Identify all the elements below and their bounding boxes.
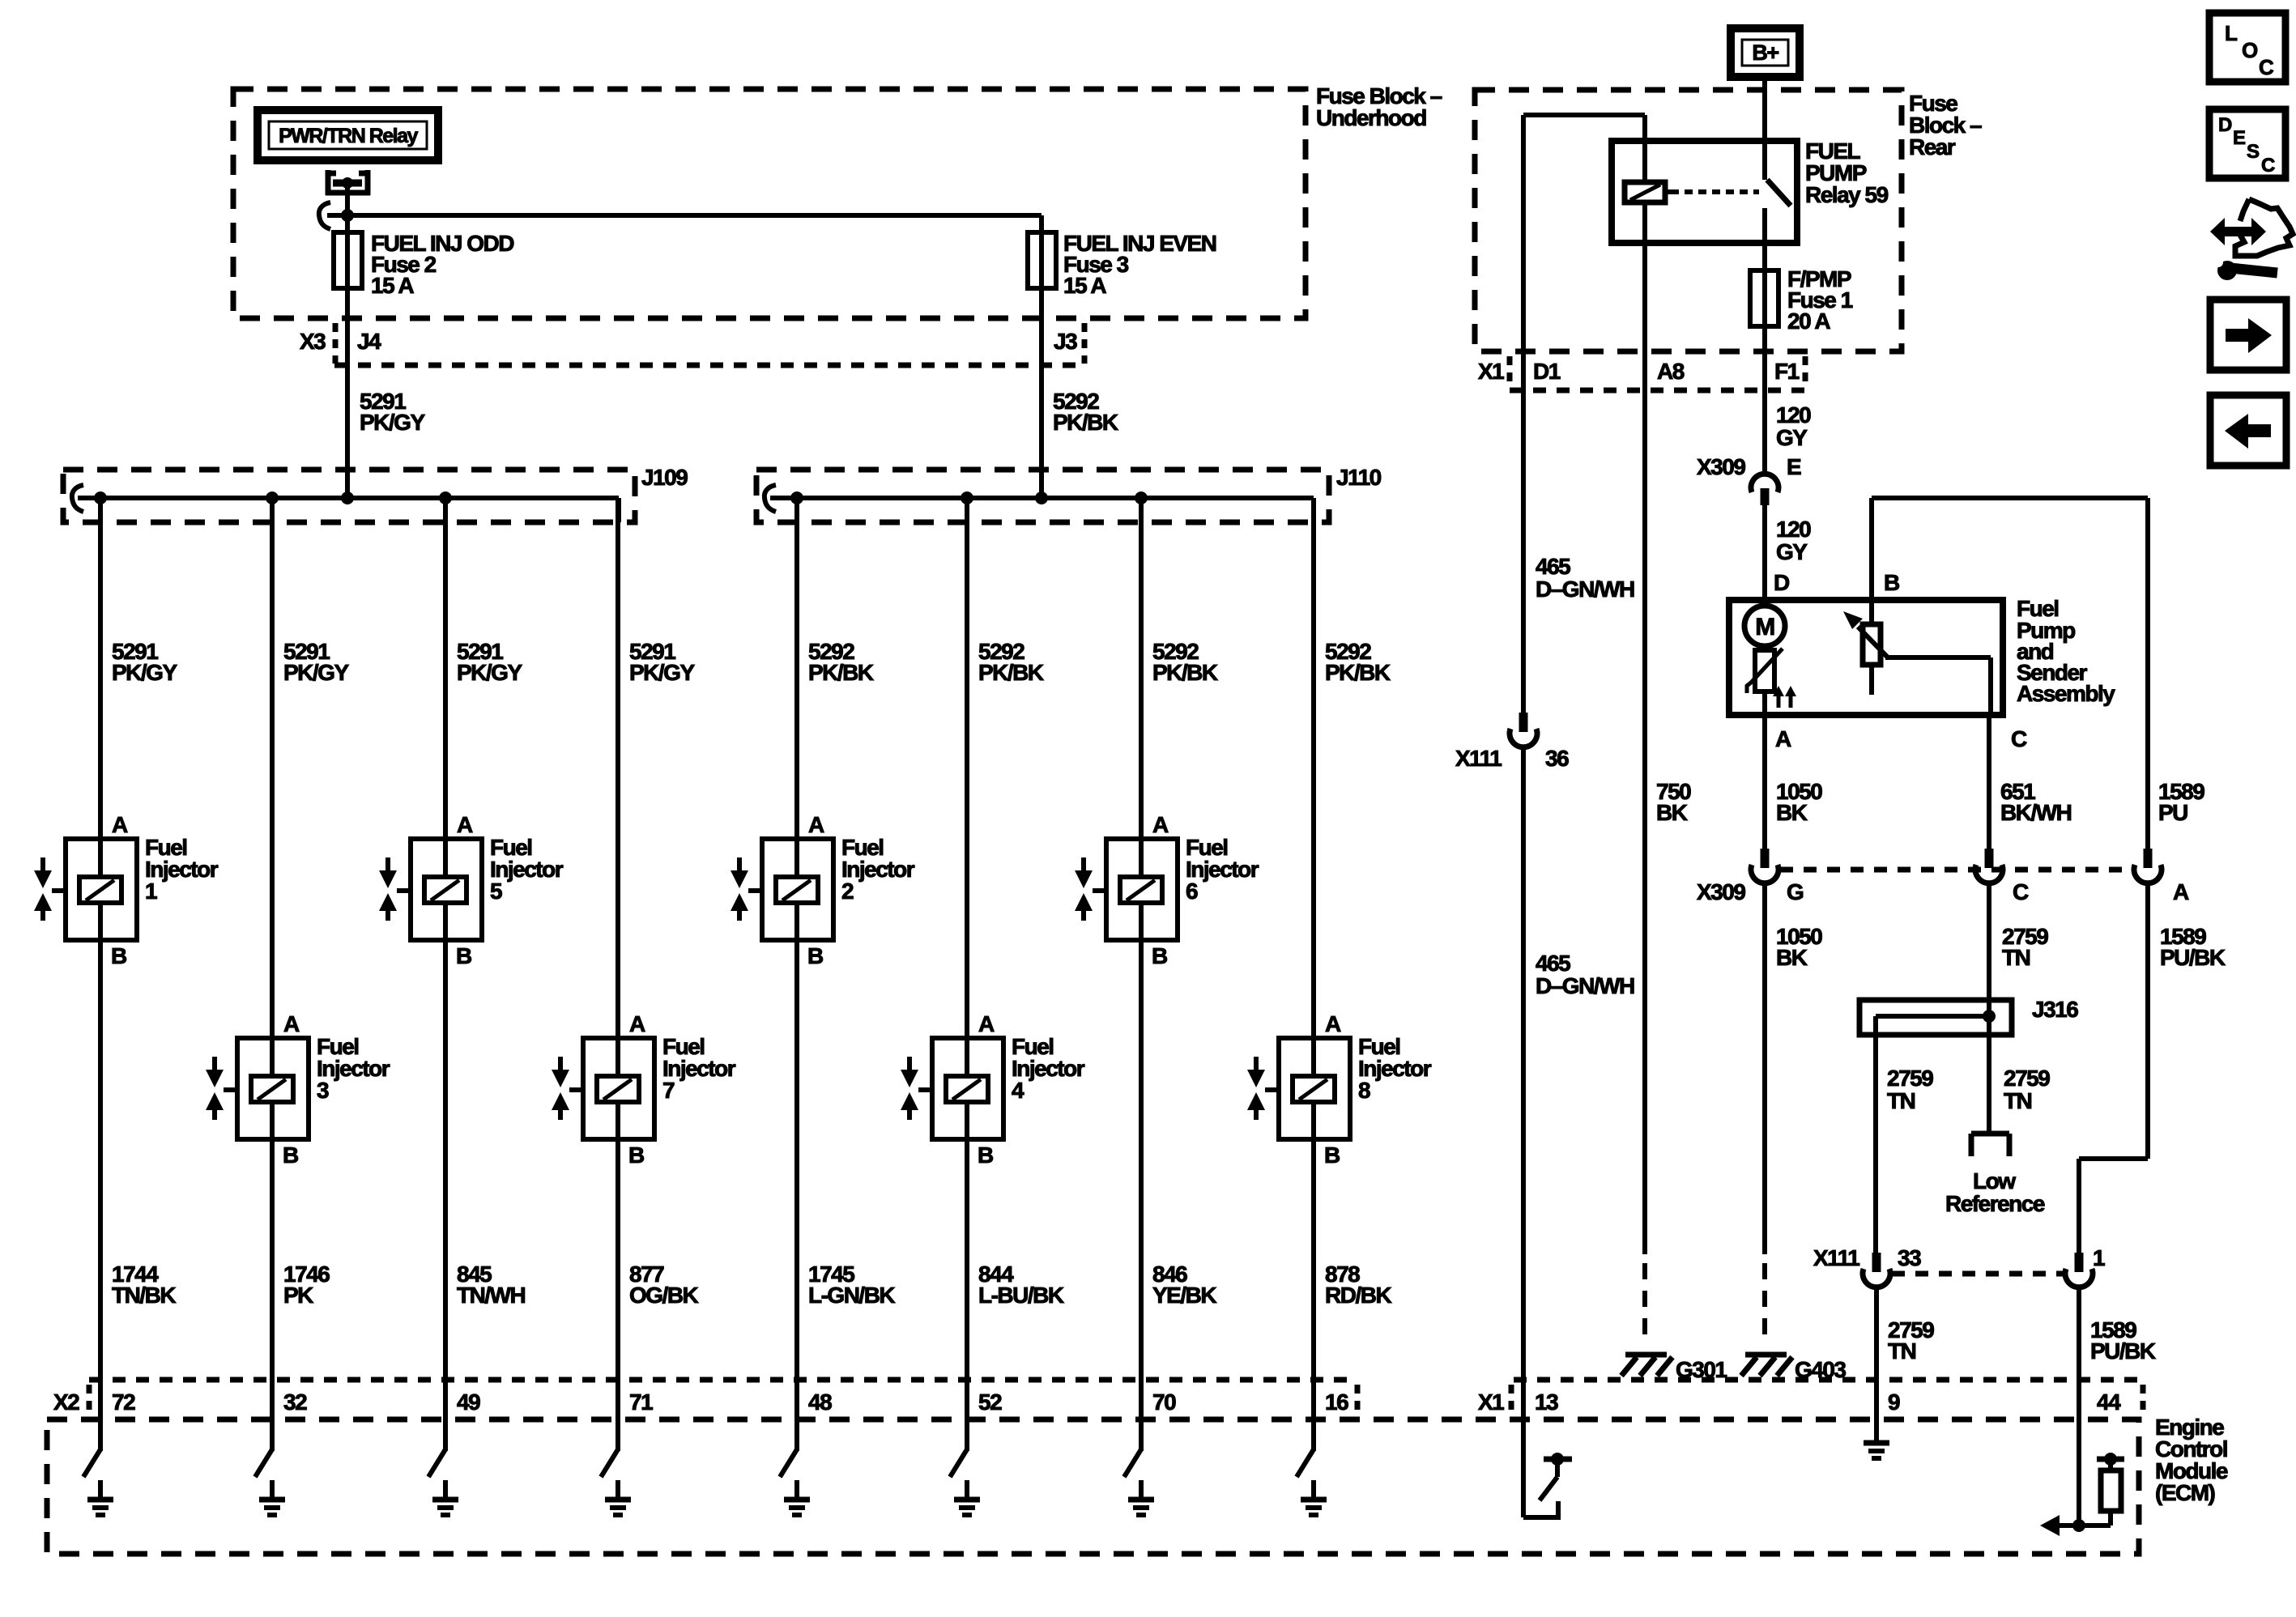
label 2759 TN upper — [2002, 924, 2048, 970]
svg-text:PK/BK: PK/BK — [1152, 660, 1218, 685]
icon LOC box — [2209, 13, 2285, 82]
ECM connector row X2 (dotted) — [53, 1380, 1357, 1415]
label fuse 2 — [371, 231, 514, 298]
svg-text:X309: X309 — [1697, 454, 1745, 479]
label 2759 TN left — [1887, 1066, 1933, 1113]
svg-text:3: 3 — [317, 1078, 329, 1103]
svg-text:5: 5 — [490, 879, 502, 904]
ground G403 — [1741, 1355, 1846, 1382]
svg-text:X309: X309 — [1697, 879, 1745, 904]
svg-text:C: C — [2011, 726, 2027, 751]
svg-text:120: 120 — [1776, 517, 1811, 542]
svg-text:72: 72 — [112, 1389, 135, 1415]
svg-text:B: B — [456, 943, 471, 968]
svg-text:PK/BK: PK/BK — [978, 660, 1044, 685]
pump element — [1747, 646, 1783, 693]
svg-text:7: 7 — [662, 1078, 675, 1103]
svg-text:49: 49 — [457, 1389, 480, 1415]
svg-text:TN: TN — [1888, 1338, 1916, 1364]
svg-text:13: 13 — [1535, 1389, 1558, 1415]
svg-text:PK/GY: PK/GY — [112, 660, 177, 685]
sender wiper arrow to pin C — [1843, 611, 1991, 715]
label FUEL PUMP Relay 59 — [1805, 138, 1889, 207]
wire 1050 BK pump A to X309 G — [1762, 715, 1767, 849]
label 5292 PK/BK x=1409 — [1152, 639, 1218, 685]
svg-text:44: 44 — [2097, 1389, 2121, 1415]
curl at J110 bus start — [765, 485, 776, 512]
wire 2759 TN J316 to low reference — [1987, 1016, 1991, 1134]
fuel injector 3 — [206, 1011, 390, 1168]
svg-text:X111: X111 — [1813, 1245, 1859, 1270]
svg-text:PU/BK: PU/BK — [2160, 945, 2226, 970]
Engine Control Module ECM (dashed box) — [47, 1419, 2139, 1554]
svg-text:(ECM): (ECM) — [2155, 1480, 2215, 1505]
connector X111 36 — [1455, 713, 1569, 771]
fuel injector 8 — [1247, 1011, 1432, 1168]
svg-text:L: L — [2225, 21, 2238, 45]
FUEL PUMP Relay 59 box — [1612, 141, 1797, 243]
ECM driver switch + ground for injector 2 — [780, 1449, 810, 1515]
relay 59 switch — [1765, 141, 1791, 243]
label Fuel Pump and Sender Assembly — [2017, 596, 2115, 706]
svg-text:A: A — [283, 1011, 300, 1036]
label 1589 PU — [2158, 779, 2204, 825]
ECM driver switch + ground for injector 4 — [950, 1449, 980, 1515]
ground G301 — [1621, 1355, 1727, 1382]
wire 1050 BK X309 G down — [1762, 885, 1767, 1254]
label 2759 TN lower — [1888, 1317, 1934, 1364]
svg-text:PWR/TRN Relay: PWR/TRN Relay — [279, 125, 418, 147]
label pin A — [1775, 726, 1791, 751]
label pin B — [1884, 570, 1899, 595]
svg-text:2: 2 — [841, 879, 854, 904]
fuel injector 6 — [1075, 812, 1259, 968]
wire 1589 PU down to X309 A — [2145, 498, 2150, 849]
svg-text:PK/BK: PK/BK — [1325, 660, 1391, 685]
label J110 — [1336, 465, 1382, 490]
svg-text:8: 8 — [1358, 1078, 1370, 1103]
PWR/TRN Relay box — [258, 110, 438, 160]
label wire 877 OG/BK — [629, 1262, 699, 1308]
svg-text:120: 120 — [1776, 402, 1811, 428]
label 465 D-GN/WH lower — [1536, 951, 1634, 998]
fuse F2 FUEL INJ ODD 15A — [334, 232, 362, 288]
label 5291 PK/GY x=763 — [629, 639, 695, 685]
svg-text:C: C — [2259, 55, 2274, 79]
wire 1589 PU horizontal to sender B — [1872, 498, 2148, 600]
label 2759 TN right — [2004, 1066, 2050, 1113]
label Fuse Block - Underhood — [1316, 83, 1442, 130]
svg-text:B: B — [807, 943, 823, 968]
ECM driver switch + ground for injector 3 — [255, 1449, 285, 1515]
svg-text:X1: X1 — [1478, 1389, 1504, 1415]
low reference terminal — [1971, 1134, 2009, 1156]
X111 row dashed link — [1892, 1271, 2064, 1277]
label wire 846 YE/BK — [1152, 1262, 1216, 1308]
wire 5291 PK/GY branch x=336 — [270, 498, 275, 1451]
connector X309 G — [1697, 849, 1804, 904]
wire 651 BK/WH sender C to X309 C — [1987, 715, 1991, 849]
svg-text:L-BU/BK: L-BU/BK — [978, 1283, 1064, 1308]
svg-text:PK/GY: PK/GY — [360, 410, 425, 435]
wire 5291 PK/GY branch x=763 — [616, 498, 620, 1451]
svg-text:E: E — [1787, 454, 1801, 479]
icon DESC box — [2209, 109, 2285, 178]
fuel injector 2 — [731, 812, 915, 968]
svg-text:OG/BK: OG/BK — [629, 1283, 699, 1308]
svg-text:BK/WH: BK/WH — [2000, 800, 2072, 825]
label 465 D-GN/WH upper — [1536, 554, 1634, 602]
label 5291 PK/GY x=550 — [457, 639, 522, 685]
svg-text:D1: D1 — [1533, 359, 1561, 384]
label Low Reference — [1945, 1168, 2045, 1216]
svg-text:J109: J109 — [641, 465, 688, 490]
ECM driver switch + ground for injector 5 — [428, 1449, 458, 1515]
wire 5292 fuse3 to J110 — [1039, 288, 1044, 498]
wire 1589 PU/BK jog — [2079, 1159, 2148, 1253]
svg-text:15 A: 15 A — [371, 273, 414, 298]
svg-text:B: B — [1884, 570, 1899, 595]
wire 5292 PK/BK branch x=1409 — [1139, 498, 1144, 1451]
J316 internal bus — [1876, 1010, 1996, 1023]
svg-text:465: 465 — [1536, 951, 1570, 976]
pump motor M — [1744, 600, 1785, 646]
svg-text:GY: GY — [1776, 425, 1808, 450]
svg-text:X1: X1 — [1478, 359, 1504, 384]
wire 5292 PK/BK branch x=1194 — [965, 498, 969, 1451]
svg-text:J110: J110 — [1336, 465, 1382, 490]
wire 1589 PU/BK X111 1 to ECM 44 — [2077, 1289, 2081, 1526]
wire 120 GY fuse1 to X309 E — [1762, 326, 1767, 474]
svg-text:PU/BK: PU/BK — [2090, 1338, 2156, 1364]
svg-text:BK: BK — [1776, 800, 1808, 825]
svg-text:71: 71 — [629, 1389, 653, 1415]
svg-text:BK: BK — [1656, 800, 1688, 825]
connector X309 C — [1975, 849, 2029, 904]
svg-text:J3: J3 — [1054, 329, 1077, 354]
label Fuse Block - Rear — [1909, 91, 1982, 160]
svg-text:X111: X111 — [1455, 746, 1502, 771]
wire 465 D-GN/WH down to X111 36 — [1521, 115, 1526, 713]
svg-text:C: C — [2013, 879, 2029, 904]
label wire 845 TN/WH — [457, 1262, 526, 1308]
label J109 — [641, 465, 688, 490]
svg-text:S: S — [2247, 141, 2260, 163]
label 5291 PK/GY x=336 — [283, 639, 349, 685]
svg-text:A: A — [978, 1011, 995, 1036]
svg-text:Rear: Rear — [1909, 134, 1956, 160]
splice pack J316 box — [1859, 1000, 2012, 1035]
connector X309 A — [2134, 849, 2189, 904]
svg-text:9: 9 — [1888, 1389, 1900, 1415]
svg-text:B: B — [978, 1143, 993, 1168]
label wire 1746 PK — [283, 1262, 330, 1308]
label 750 BK — [1656, 779, 1691, 825]
wire 2759 TN X111 33 to ECM 9 — [1874, 1289, 1879, 1440]
label 1589 PU/BK upper — [2160, 924, 2226, 970]
ECM pin 9 internal ground — [1864, 1443, 1889, 1458]
svg-text:20 A: 20 A — [1787, 309, 1830, 334]
svg-text:D–GN/WH: D–GN/WH — [1536, 973, 1634, 998]
label wire 1745 L-GN/BK — [808, 1262, 895, 1308]
svg-text:X2: X2 — [53, 1389, 79, 1415]
label 1050 BK upper — [1776, 779, 1822, 825]
icon arrow right box — [2210, 300, 2286, 370]
svg-text:M: M — [1755, 614, 1774, 640]
ECM driver switch + ground for injector 7 — [601, 1449, 631, 1515]
svg-text:TN/BK: TN/BK — [112, 1283, 176, 1308]
svg-text:PK/GY: PK/GY — [283, 660, 349, 685]
label 5292 PK/BK x=984 — [808, 639, 874, 685]
svg-text:O: O — [2242, 38, 2258, 62]
label 5292 PK/BK x=1194 — [978, 639, 1044, 685]
connector X111 1 — [2065, 1245, 2105, 1287]
svg-text:GY: GY — [1776, 539, 1808, 564]
svg-text:A: A — [808, 812, 824, 837]
ECM fuel pump relay driver (pin 13) — [1523, 1453, 1572, 1520]
connector X309 E — [1697, 454, 1801, 505]
sender variable resistor — [1863, 600, 1881, 695]
label fuse 3 — [1063, 231, 1216, 298]
svg-text:33: 33 — [1898, 1245, 1921, 1270]
svg-text:70: 70 — [1152, 1389, 1176, 1415]
bus wire J109 — [78, 498, 619, 522]
svg-text:D–GN/WH: D–GN/WH — [1536, 577, 1634, 602]
svg-text:465: 465 — [1536, 554, 1570, 579]
svg-text:G403: G403 — [1795, 1357, 1846, 1382]
svg-text:Reference: Reference — [1945, 1191, 2045, 1216]
ECM driver switch + ground for injector 6 — [1124, 1449, 1154, 1515]
wire 5291 PK/GY branch x=124 — [98, 498, 103, 1451]
label J316 — [2032, 997, 2078, 1022]
label 5291 PK/GY x=124 — [112, 639, 177, 685]
ECM driver switch + ground for injector 1 — [83, 1449, 113, 1515]
fuel injector 7 — [552, 1011, 736, 1168]
svg-text:TN: TN — [1887, 1088, 1915, 1113]
svg-text:32: 32 — [283, 1389, 307, 1415]
svg-text:RD/BK: RD/BK — [1325, 1283, 1391, 1308]
svg-text:A: A — [2173, 879, 2189, 904]
icon arrow left box — [2210, 395, 2286, 466]
relay 59 dashed link — [1671, 189, 1759, 194]
svg-text:6: 6 — [1186, 879, 1198, 904]
svg-text:L-GN/BK: L-GN/BK — [808, 1283, 895, 1308]
svg-text:TN: TN — [2004, 1088, 2032, 1113]
svg-text:PK/GY: PK/GY — [629, 660, 695, 685]
svg-text:52: 52 — [978, 1389, 1002, 1415]
ECM connector row X1 (dotted) — [1478, 1380, 2143, 1415]
rear connector row X1/D1/A8/F1 — [1478, 356, 1805, 390]
label wire 1744 TN/BK — [112, 1262, 176, 1308]
wire pump to pin A — [1762, 691, 1767, 715]
wire 750 BK dashed to G301 — [1642, 1263, 1647, 1346]
svg-text:PK/BK: PK/BK — [1053, 410, 1118, 435]
B+ battery feed box — [1731, 28, 1800, 77]
wire 120 GY X309 E to pump D — [1762, 505, 1767, 606]
fuel injector 1 — [34, 812, 219, 968]
svg-text:Underhood: Underhood — [1316, 105, 1426, 130]
svg-text:16: 16 — [1325, 1389, 1348, 1415]
svg-text:A8: A8 — [1657, 359, 1685, 384]
label 120 GY lower — [1776, 517, 1811, 564]
wire F/PMP relay to fuse1 — [1762, 243, 1767, 270]
wire 5291 fuse2 to J109 — [345, 288, 350, 498]
svg-text:E: E — [2233, 127, 2246, 149]
X309 row dashed link — [1780, 867, 2132, 873]
labels ECM X1 pins — [1535, 1389, 2121, 1415]
wire 2759 TN X309 C to J316 — [1987, 885, 1991, 1016]
label pin C — [2011, 726, 2027, 751]
curl wire-continuation at feed — [319, 202, 330, 229]
svg-text:B: B — [283, 1143, 298, 1168]
svg-text:A: A — [1152, 812, 1169, 837]
wire feed to fuse3 (horizontal) — [327, 215, 1042, 232]
svg-text:TN: TN — [2002, 945, 2030, 970]
fuse F1 F/PMP 20A — [1750, 270, 1778, 326]
svg-text:B: B — [1152, 943, 1167, 968]
svg-text:B: B — [628, 1143, 644, 1168]
label wire 5292 PK/BK feed — [1053, 389, 1118, 435]
underhood connector row X3/J4/J3 — [300, 323, 1084, 365]
label 651 BK/WH — [2000, 779, 2072, 825]
svg-text:4: 4 — [1012, 1078, 1024, 1103]
relay PWR/TRN output contact symbol — [326, 170, 370, 195]
junction dots J110 — [790, 491, 1148, 504]
svg-text:15 A: 15 A — [1063, 273, 1106, 298]
svg-text:TN/WH: TN/WH — [457, 1283, 526, 1308]
label 5292 PK/BK x=1622 — [1325, 639, 1391, 685]
wire 1589 PU/BK X309 A down — [2145, 885, 2150, 1159]
svg-text:48: 48 — [808, 1389, 832, 1415]
wire 1050 BK dashed to G403 — [1762, 1263, 1767, 1346]
svg-text:Relay 59: Relay 59 — [1805, 182, 1889, 207]
label 120 GY upper — [1776, 402, 1811, 450]
svg-text:1: 1 — [145, 879, 157, 904]
svg-text:A: A — [629, 1011, 645, 1036]
svg-text:Assembly: Assembly — [2017, 681, 2115, 706]
svg-text:F1: F1 — [1774, 359, 1800, 384]
wire B+ to relay — [1762, 77, 1767, 141]
svg-text:PU: PU — [2158, 800, 2187, 825]
svg-text:A: A — [112, 812, 128, 837]
svg-text:2759: 2759 — [2004, 1066, 2050, 1091]
wire A8 coil top to D1 (horizontal) — [1523, 115, 1645, 182]
connector X111 33 — [1813, 1245, 1921, 1287]
ECM pin 44 internal pullup and sense — [2040, 1453, 2124, 1536]
label wire 844 L-BU/BK — [978, 1262, 1064, 1308]
label pin D — [1774, 570, 1790, 595]
wire 5291 PK/GY branch x=550 — [443, 498, 448, 1451]
svg-text:D: D — [1774, 570, 1790, 595]
svg-text:PK/BK: PK/BK — [808, 660, 874, 685]
junction block J110 (dashed box) — [756, 470, 1329, 522]
svg-text:PK: PK — [283, 1283, 313, 1308]
svg-text:B: B — [1324, 1143, 1340, 1168]
wire 5292 PK/BK branch x=1622 — [1311, 498, 1316, 1451]
svg-text:A: A — [1775, 726, 1791, 751]
svg-text:36: 36 — [1545, 746, 1569, 771]
svg-text:B: B — [111, 943, 126, 968]
label 1589 PU/BK lower — [2090, 1317, 2156, 1364]
fuse block - underhood (dashed box) — [233, 89, 1306, 318]
svg-text:D: D — [2218, 114, 2232, 136]
svg-text:1: 1 — [2093, 1245, 2105, 1270]
wire 2759 TN J316 to X111 33 — [1873, 1016, 1878, 1253]
label wire 878 RD/BK — [1325, 1262, 1391, 1308]
junction node fuse feed — [341, 209, 354, 222]
svg-text:B+: B+ — [1752, 40, 1778, 65]
svg-text:BK: BK — [1776, 945, 1808, 970]
fuse F3 FUEL INJ EVEN 15A — [1028, 232, 1056, 288]
wire 465 D-GN/WH to ECM 13 — [1521, 749, 1526, 1517]
svg-text:2759: 2759 — [1887, 1066, 1933, 1091]
svg-text:PK/GY: PK/GY — [457, 660, 522, 685]
label fuse 1 — [1787, 266, 1853, 334]
fuse block - rear (dashed box) — [1475, 90, 1902, 351]
wire 750 BK coil to ground (A8) — [1642, 202, 1647, 1254]
svg-text:A: A — [1325, 1011, 1341, 1036]
relay 59 coil — [1625, 182, 1671, 202]
svg-text:A: A — [457, 812, 473, 837]
svg-text:G: G — [1787, 879, 1804, 904]
fuel injector 5 — [379, 812, 564, 968]
svg-text:J316: J316 — [2032, 997, 2078, 1022]
label Engine Control Module (ECM) — [2155, 1415, 2228, 1505]
ECM driver switch + ground for injector 8 — [1297, 1449, 1327, 1515]
label 1050 BK lower — [1776, 924, 1822, 970]
label wire 5291 PK/GY feed — [360, 389, 425, 435]
labels ECM X2 pins — [112, 1389, 1348, 1415]
curl at J109 bus start — [72, 485, 83, 512]
svg-text:Low: Low — [1973, 1168, 2016, 1194]
fuel pump and sender assembly box — [1729, 600, 2003, 715]
junction block J109 (dashed box) — [63, 470, 635, 522]
svg-text:YE/BK: YE/BK — [1152, 1283, 1216, 1308]
svg-text:X3: X3 — [300, 329, 326, 354]
pump flow arrows — [1773, 686, 1796, 708]
svg-text:G301: G301 — [1676, 1357, 1727, 1382]
wire 5292 PK/BK branch x=984 — [794, 498, 799, 1451]
svg-text:J4: J4 — [357, 329, 381, 354]
icon vehicle-wrench — [2210, 199, 2293, 280]
fuel injector 4 — [901, 1011, 1085, 1168]
bus wire J110 — [770, 498, 1314, 522]
junction dots J109 — [94, 491, 452, 504]
wire relay to fuse2 junction — [345, 186, 350, 232]
svg-text:C: C — [2261, 155, 2275, 177]
